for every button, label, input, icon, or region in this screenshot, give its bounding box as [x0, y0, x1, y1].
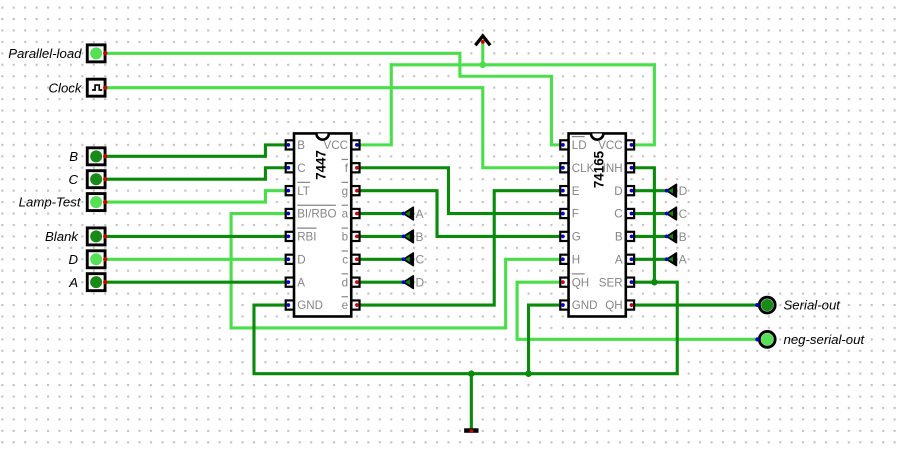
- svg-text:QH: QH: [572, 276, 589, 289]
- svg-text:H: H: [572, 253, 580, 266]
- svg-text:c: c: [342, 253, 348, 266]
- svg-text:GND: GND: [297, 299, 323, 312]
- svg-text:G: G: [572, 231, 581, 244]
- svg-text:d: d: [342, 276, 348, 289]
- svg-text:Parallel-load: Parallel-load: [8, 46, 82, 61]
- svg-text:SER: SER: [599, 276, 623, 289]
- svg-text:Clock: Clock: [49, 80, 83, 95]
- svg-text:g: g: [342, 185, 348, 198]
- svg-text:C: C: [614, 208, 622, 221]
- svg-text:D: D: [68, 252, 78, 267]
- svg-text:B: B: [679, 230, 687, 244]
- svg-text:A: A: [297, 276, 305, 289]
- svg-text:LT: LT: [297, 185, 310, 198]
- svg-text:A: A: [68, 275, 78, 290]
- svg-text:LD: LD: [572, 139, 587, 152]
- svg-text:D: D: [679, 184, 688, 198]
- svg-text:A: A: [416, 207, 424, 221]
- svg-text:Blank: Blank: [45, 229, 79, 244]
- svg-text:C: C: [679, 207, 688, 221]
- svg-text:B: B: [69, 149, 78, 164]
- svg-text:B: B: [416, 230, 424, 244]
- svg-text:QH: QH: [605, 299, 622, 312]
- svg-text:BI/RBO: BI/RBO: [297, 208, 336, 221]
- svg-text:B: B: [615, 231, 623, 244]
- svg-text:Serial-out: Serial-out: [784, 298, 842, 313]
- svg-text:D: D: [416, 276, 425, 290]
- svg-text:C: C: [416, 253, 425, 267]
- svg-text:F: F: [572, 208, 579, 221]
- svg-text:neg-serial-out: neg-serial-out: [784, 332, 866, 347]
- svg-text:D: D: [614, 185, 622, 198]
- svg-text:D: D: [297, 253, 305, 266]
- svg-text:b: b: [342, 231, 348, 244]
- svg-text:C: C: [297, 162, 305, 175]
- svg-text:74165: 74165: [591, 150, 606, 188]
- svg-text:Lamp-Test: Lamp-Test: [19, 195, 82, 210]
- svg-text:A: A: [615, 253, 623, 266]
- svg-text:RBI: RBI: [297, 231, 316, 244]
- svg-text:a: a: [342, 208, 349, 221]
- svg-text:A: A: [679, 253, 687, 267]
- svg-text:e: e: [342, 299, 348, 312]
- svg-text:E: E: [572, 185, 580, 198]
- svg-text:7447: 7447: [314, 150, 329, 180]
- svg-text:GND: GND: [572, 299, 598, 312]
- svg-text:VCC: VCC: [598, 139, 622, 152]
- svg-text:C: C: [68, 172, 78, 187]
- svg-text:B: B: [297, 139, 305, 152]
